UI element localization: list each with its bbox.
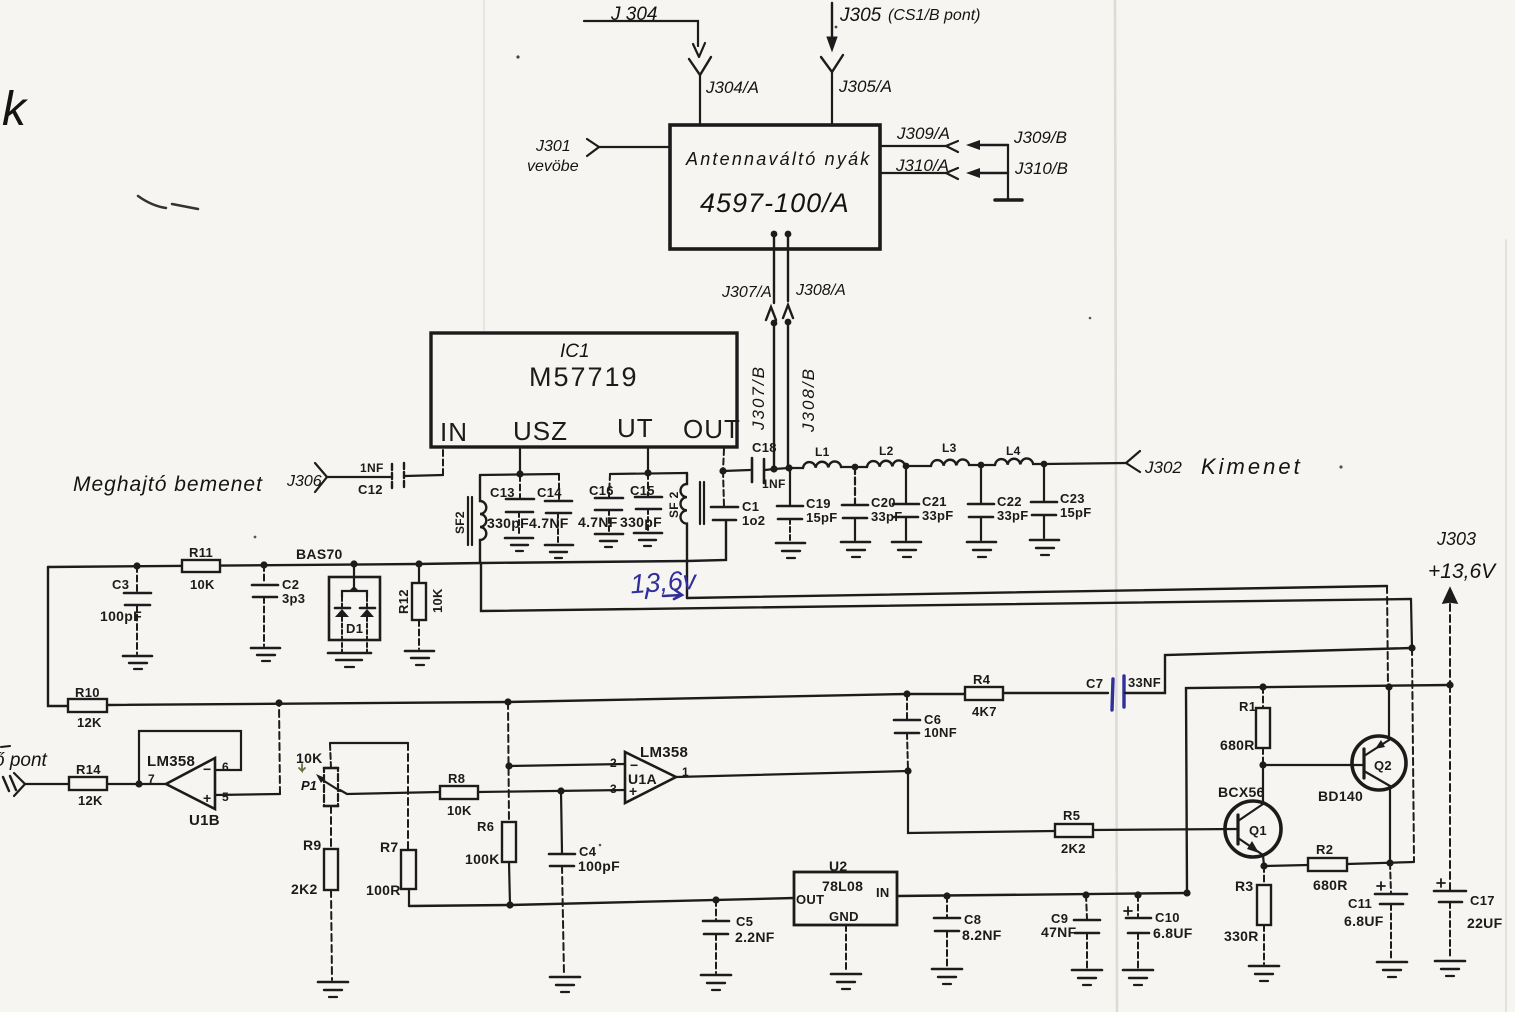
transistor Q1 BCX56 (1218, 784, 1281, 857)
ground under C9 (1072, 970, 1102, 985)
node line3 junction (1408, 644, 1415, 651)
ground under C19 (776, 543, 805, 558)
svg-text:k: k (2, 83, 29, 136)
svg-text:22UF: 22UF (1467, 915, 1503, 931)
wire R8 to U1A plus input (478, 787, 625, 794)
wire J308/A (785, 231, 846, 301)
svg-text:10NF: 10NF (924, 725, 957, 740)
resistor R8 10K (440, 771, 478, 818)
svg-text:U1A: U1A (628, 771, 657, 787)
arrow J308/B up (783, 305, 793, 318)
node C8 junction (943, 892, 950, 899)
wire J307/A (721, 231, 777, 303)
wire C12 to IN pin (405, 449, 443, 476)
op-amp U1B LM358 (147, 753, 229, 829)
capacitor C18 1NF series (723, 440, 786, 491)
svg-text:680R: 680R (1313, 877, 1348, 893)
svg-text:Q2: Q2 (1374, 758, 1392, 773)
wire C16 C15 top bracket (610, 473, 686, 474)
resistor R4 4K7 (965, 672, 1003, 719)
capacitor C7 33NF blue (1086, 675, 1161, 710)
wire J305 feed (831, 3, 833, 40)
svg-text:1NF: 1NF (762, 477, 786, 491)
wire R10 line to R4 (907, 693, 965, 695)
svg-text:BCX56: BCX56 (1218, 784, 1265, 800)
wire R4 to C7 (1003, 692, 1108, 694)
resistor R11 10K (182, 545, 220, 592)
svg-text:C13: C13 (490, 485, 515, 500)
svg-text:8.2NF: 8.2NF (962, 927, 1002, 943)
svg-text:J310/B: J310/B (1014, 159, 1068, 178)
ground under C3 (123, 656, 152, 669)
svg-text:R5: R5 (1063, 808, 1080, 823)
wire Q1 emitter node (1260, 855, 1267, 870)
transistor Q2 BD140 (1318, 736, 1406, 804)
svg-text:330pF: 330pF (487, 515, 529, 531)
wire Q2 base (1263, 764, 1364, 766)
svg-text:Antennaváltó nyák: Antennaváltó nyák (685, 149, 872, 169)
connector J302 Kimenet (1126, 451, 1303, 479)
svg-text:6.8UF: 6.8UF (1153, 925, 1193, 941)
wire C13 C14 top bracket (480, 474, 559, 476)
svg-text:C14: C14 (537, 485, 562, 500)
svg-text:15pF: 15pF (1060, 505, 1092, 520)
svg-text:+: + (203, 790, 211, 806)
svg-text:330R: 330R (1224, 928, 1259, 944)
svg-text:33NF: 33NF (1128, 675, 1161, 690)
wire bias feed line from Q2 collector (481, 563, 1411, 611)
svg-text:R14: R14 (76, 762, 101, 777)
ground under C5 (701, 975, 731, 990)
svg-text:R2: R2 (1316, 842, 1333, 857)
svg-text:100K: 100K (465, 851, 500, 867)
wire U1A pin2 (509, 764, 625, 766)
svg-text:2K2: 2K2 (291, 881, 318, 897)
svg-text:1NF: 1NF (360, 461, 384, 475)
svg-text:C22: C22 (997, 494, 1022, 509)
handwritten k mark top-left (2, 83, 29, 136)
wire P1 top bracket to R7 (330, 743, 408, 850)
svg-text:LM358: LM358 (147, 753, 195, 770)
svg-text:33pF: 33pF (997, 508, 1029, 523)
wire J309/A (880, 124, 958, 152)
svg-text:J302: J302 (1144, 458, 1182, 477)
wire OUT pin (719, 449, 726, 475)
svg-text:5: 5 (222, 790, 229, 804)
svg-text:LM358: LM358 (640, 744, 688, 761)
ground under R3 (1249, 966, 1279, 981)
svg-text:C21: C21 (922, 494, 947, 509)
svg-text:100R: 100R (366, 882, 401, 898)
svg-text:J303: J303 (1436, 529, 1476, 549)
svg-text:C1: C1 (742, 499, 759, 514)
diode D1 BAS70 dual (329, 564, 380, 652)
svg-text:C15: C15 (630, 483, 655, 498)
svg-text:C2: C2 (282, 577, 299, 592)
wire USZ pin (516, 449, 523, 478)
capacitor C16 4.7NF (578, 474, 623, 532)
svg-text:2.2NF: 2.2NF (735, 929, 775, 945)
node R1 top junction (1259, 683, 1266, 690)
potentiometer P1 10K (296, 750, 340, 806)
text BAS70 (296, 546, 343, 562)
ground under C13 (505, 538, 533, 551)
svg-text:C19: C19 (806, 496, 831, 511)
wire bias rail BAS70 row (48, 521, 726, 567)
svg-text:J305: J305 (839, 5, 882, 26)
capacitor C15 330pF (620, 473, 662, 531)
ground under C23 (1030, 540, 1059, 555)
svg-text:12K: 12K (77, 715, 102, 730)
wire regulator output rail (409, 898, 794, 906)
arrow J309/B (966, 128, 1067, 150)
svg-text:BD140: BD140 (1318, 788, 1363, 804)
svg-text:R4: R4 (973, 672, 991, 687)
wire U1B pin5 to R10 node (215, 703, 280, 795)
wire Q2 emitter to 13.6V (1388, 687, 1390, 740)
arrow J307/B up (766, 307, 776, 320)
capacitor C17 22UF (1434, 685, 1503, 959)
svg-text:10K: 10K (190, 577, 215, 592)
svg-text:+13,6V: +13,6V (1428, 560, 1497, 583)
svg-text:1o2: 1o2 (742, 513, 765, 528)
node D1 junction (350, 560, 357, 567)
resistor R1 680R (1220, 687, 1270, 765)
svg-text:C17: C17 (1470, 893, 1495, 908)
wire J304 feed (584, 21, 698, 46)
svg-text:C3: C3 (112, 577, 129, 592)
resistor R7 100R (366, 839, 416, 906)
inductor L2 (855, 444, 909, 469)
svg-text:C5: C5 (736, 914, 753, 929)
antenna switch box 4597-100/A (670, 125, 880, 249)
capacitor C20 33pF (842, 467, 903, 540)
svg-text:SF2: SF2 (453, 511, 467, 534)
node J307/B junction (770, 465, 777, 472)
resistor R10 12K (68, 685, 107, 730)
svg-text:M57719: M57719 (529, 362, 639, 392)
svg-text:IN: IN (440, 417, 468, 447)
capacitor C11 6.8UF (1344, 863, 1407, 960)
svg-text:L1: L1 (815, 445, 830, 459)
svg-text:D1: D1 (346, 621, 363, 636)
node R12 junction (415, 560, 422, 567)
ground under C16 (595, 534, 623, 547)
svg-text:J310/A: J310/A (895, 156, 949, 175)
resistor R14 12K (69, 762, 107, 808)
svg-text:R3: R3 (1235, 878, 1254, 894)
wire UT pin (644, 449, 651, 477)
ground under C11 (1377, 962, 1407, 977)
svg-text:C23: C23 (1060, 491, 1085, 506)
capacitor C14 4.7NF (529, 474, 572, 543)
svg-text:R1: R1 (1239, 699, 1256, 714)
inductor L1 (789, 445, 858, 470)
svg-text:C12: C12 (358, 482, 383, 497)
wire R10 feedback line (48, 567, 68, 706)
svg-text:3: 3 (610, 782, 617, 796)
svg-text:2K2: 2K2 (1061, 841, 1086, 856)
inductor L4 (981, 444, 1047, 467)
inductor SF2 left choke (453, 476, 486, 563)
capacitor C19 15pF (777, 468, 838, 541)
node pin5 riser junction (275, 699, 282, 706)
text Meghajto bemenet (73, 473, 263, 496)
ground under C20 (841, 542, 870, 557)
resistor R2 680R (1264, 842, 1414, 893)
antenna J305/A (821, 55, 892, 125)
svg-text:IN: IN (876, 885, 890, 900)
svg-text:U2: U2 (829, 858, 848, 874)
svg-text:OUT: OUT (796, 892, 824, 907)
capacitor C8 8.2NF (934, 896, 1002, 967)
node C10 junction (1134, 891, 1141, 898)
capacitor C4 100pF (549, 791, 620, 975)
svg-text:2: 2 (610, 756, 617, 770)
wire J309/B J310/B drop (1007, 145, 1009, 199)
svg-text:15pF: 15pF (806, 510, 838, 525)
svg-text:R12: R12 (396, 589, 411, 614)
capacitor C2 3p3 (252, 565, 305, 646)
wire to J308/B junction (774, 464, 793, 471)
svg-text:330pF: 330pF (620, 514, 662, 530)
svg-text:J305/A: J305/A (838, 77, 892, 96)
node Q2 emitter junction (1385, 683, 1392, 690)
svg-text:3p3: 3p3 (282, 591, 305, 606)
wire U2 GND pin (845, 925, 847, 972)
svg-text:R11: R11 (189, 545, 213, 560)
svg-text:J307/B: J307/B (749, 365, 768, 431)
svg-text:J308/B: J308/B (799, 367, 818, 433)
wire Q2 collector down (1386, 786, 1393, 867)
wire R5 to Q1 base (1093, 829, 1238, 830)
wire P1 wiper to R8 (340, 790, 440, 794)
inductor L3 (906, 441, 984, 468)
svg-text:L4: L4 (1006, 444, 1021, 458)
node C9 junction (1082, 891, 1089, 898)
connector meropont (3, 773, 69, 796)
svg-text:13,6v: 13,6v (629, 565, 698, 600)
svg-text:10K: 10K (447, 803, 472, 818)
resistor R6 100K (465, 702, 516, 905)
inductor SF2 right choke (667, 473, 704, 598)
connector J301 vevobe (527, 138, 670, 175)
power arrow J303 (1443, 588, 1457, 685)
node C3 junction (133, 562, 140, 569)
svg-text:J309/B: J309/B (1013, 128, 1067, 147)
svg-text:R7: R7 (380, 839, 399, 855)
IC1 M57719 box (431, 333, 741, 447)
svg-text:BAS70: BAS70 (296, 546, 343, 562)
svg-text:4.7NF: 4.7NF (578, 514, 618, 530)
op-amp U1A LM358 (610, 744, 689, 803)
svg-text:C10: C10 (1155, 910, 1180, 925)
wire to output connector (1044, 463, 1127, 464)
svg-text:C7: C7 (1086, 676, 1103, 691)
text pont (0, 746, 48, 771)
wire U1B feedback loop (139, 731, 241, 784)
arrow J304 down (693, 43, 705, 57)
svg-text:4.7NF: 4.7NF (529, 515, 569, 531)
svg-text:vevöbe: vevöbe (527, 158, 579, 175)
node C2 junction (260, 561, 267, 568)
svg-text:J307/A: J307/A (721, 284, 772, 301)
svg-text:R8: R8 (448, 771, 465, 786)
smudge mark (138, 196, 198, 209)
ground under R12 (405, 651, 434, 665)
svg-text:L3: L3 (942, 441, 957, 455)
capacitor C6 10NF (894, 694, 957, 770)
capacitor C1 1o2 (711, 471, 765, 528)
svg-text:78L08: 78L08 (822, 878, 863, 894)
wire Q1 collector (1259, 761, 1266, 804)
svg-text:ő pont: ő pont (0, 750, 48, 771)
svg-text:U1B: U1B (189, 812, 220, 829)
capacitor C13 330pF (487, 475, 534, 536)
wire 13.6V right drop to rail (1387, 586, 1388, 687)
svg-text:6: 6 (222, 760, 229, 774)
arrow J305 down (827, 37, 837, 51)
paper specks (254, 26, 1343, 847)
ground under R9 (318, 982, 348, 997)
wire U1A output (676, 767, 912, 777)
svg-text:R10: R10 (75, 685, 100, 700)
node J304 label (610, 4, 657, 25)
capacitor C3 100pF (100, 566, 151, 654)
resistor R3 330R (1224, 866, 1271, 964)
svg-text:6.8UF: 6.8UF (1344, 913, 1384, 929)
connector J306 (286, 463, 390, 492)
svg-text:12K: 12K (78, 793, 103, 808)
svg-text:100pF: 100pF (578, 858, 620, 874)
svg-text:R9: R9 (303, 837, 322, 853)
node C5 junction (712, 896, 719, 903)
ground under U2 (831, 974, 861, 989)
wire Q2 collector riser (1411, 599, 1414, 861)
ground under C22 (967, 542, 996, 557)
svg-text:L2: L2 (879, 444, 894, 458)
antenna J304/A (689, 57, 759, 125)
svg-text:J308/A: J308/A (795, 282, 846, 299)
svg-text:100pF: 100pF (100, 608, 142, 624)
resistor R9 2K2 (291, 806, 338, 980)
svg-text:Q1: Q1 (1249, 823, 1267, 838)
svg-text:J301: J301 (535, 138, 571, 155)
svg-text:7: 7 (148, 772, 155, 786)
svg-text:Kimenet: Kimenet (1201, 454, 1303, 479)
ground under C14 (545, 545, 573, 558)
ground under C4 (550, 977, 580, 992)
svg-text:P1: P1 (301, 778, 317, 793)
svg-text:4K7: 4K7 (972, 704, 997, 719)
svg-text:Meghajtó bemenet: Meghajtó bemenet (73, 473, 263, 496)
svg-text:J306: J306 (286, 473, 322, 490)
wire J308/B (785, 319, 818, 468)
ground under C17 (1435, 961, 1465, 976)
svg-text:(CS1/B pont): (CS1/B pont) (888, 7, 980, 24)
arrow J310/B (966, 159, 1068, 178)
ground under D1 (328, 653, 371, 667)
svg-text:4597-100/A: 4597-100/A (700, 188, 850, 218)
node R6 bottom junction (506, 901, 513, 908)
svg-text:47NF: 47NF (1041, 924, 1077, 940)
capacitor C9 47NF (1041, 895, 1100, 968)
paper creases (484, 0, 1506, 1012)
ground under C15 (634, 533, 662, 546)
wire J310/A (880, 156, 958, 179)
svg-text:C8: C8 (964, 912, 981, 927)
capacitor C23 15pF (1031, 464, 1092, 538)
svg-text:C16: C16 (589, 483, 614, 498)
wire output to R5 (908, 771, 1055, 833)
capacitor C10 6.8UF (1124, 895, 1193, 968)
node C6 junction (903, 690, 910, 697)
svg-text:OUT: OUT (683, 414, 741, 444)
wire R10 to C6 node (107, 694, 907, 705)
capacitor C12 1NF (358, 461, 404, 497)
svg-text:R6: R6 (477, 819, 494, 834)
svg-text:C4: C4 (579, 844, 597, 859)
resistor R12 10K (396, 564, 445, 649)
svg-text:J309/A: J309/A (896, 124, 950, 143)
node J303 junction (1446, 681, 1453, 688)
capacitor C21 33pF (893, 466, 954, 540)
ground under C21 (892, 542, 921, 557)
capacitor C22 33pF (968, 465, 1029, 540)
svg-text:USZ: USZ (513, 416, 568, 446)
node J305 label (839, 5, 980, 26)
svg-text:C18: C18 (752, 440, 777, 455)
capacitor C5 2.2NF (703, 900, 775, 973)
svg-text:J304/A: J304/A (705, 78, 759, 97)
svg-text:C11: C11 (1348, 896, 1372, 911)
svg-text:C20: C20 (871, 495, 896, 510)
resistor R5 2K2 (1055, 808, 1093, 856)
text 13,6v blue annotation (629, 565, 698, 600)
svg-text:10K: 10K (430, 588, 445, 613)
wire 13.6V supply line from SF2 (687, 586, 1387, 598)
svg-text:33pF: 33pF (922, 508, 954, 523)
svg-text:IC1: IC1 (560, 341, 590, 362)
svg-text:GND: GND (829, 909, 859, 924)
wire J307/B (749, 320, 777, 469)
ground under C8 (932, 969, 962, 984)
svg-text:−: − (203, 761, 211, 777)
svg-text:UT: UT (617, 413, 654, 443)
ground under C2 (251, 648, 280, 661)
text J303 (1428, 529, 1497, 583)
svg-text:680R: 680R (1220, 737, 1255, 753)
wire R14 to U1B output (107, 780, 166, 787)
wire 13.6V input rail (897, 889, 1191, 896)
svg-text:SF 2: SF 2 (667, 491, 681, 518)
ground J309/B (995, 198, 1022, 202)
wire 13.6V distribution line4 (1186, 685, 1450, 893)
regulator U2 78L08 (794, 858, 897, 925)
wire C7 to riser (1125, 648, 1411, 693)
node pin2 riser junction (504, 698, 511, 705)
ground under C10 (1123, 970, 1153, 985)
svg-text:10K: 10K (296, 750, 323, 766)
